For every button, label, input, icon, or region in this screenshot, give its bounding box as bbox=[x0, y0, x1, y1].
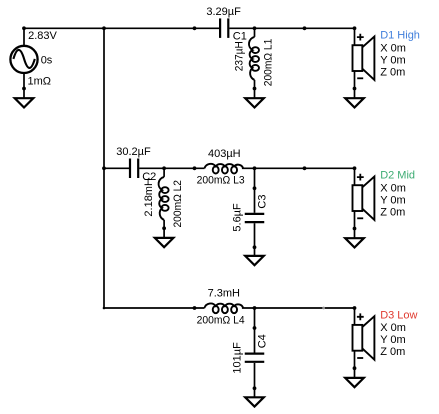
svg-text:Z 0m: Z 0m bbox=[380, 206, 405, 218]
wire C3 to ground bbox=[254, 223, 256, 256]
inductor L2 bbox=[159, 168, 169, 238]
junction D2 top corner bbox=[353, 166, 357, 170]
ground (inductor L1) bbox=[245, 98, 264, 107]
wire vertical bus bbox=[103, 28, 105, 308]
voltage source V1 bbox=[10, 28, 37, 98]
svg-text:C1: C1 bbox=[233, 31, 247, 43]
svg-text:7.3mH: 7.3mH bbox=[208, 288, 240, 300]
speaker D1 cone bbox=[362, 37, 374, 81]
junction source bottom terminal bbox=[22, 87, 26, 91]
svg-text:3.29µF: 3.29µF bbox=[206, 6, 241, 18]
junction bus middle junction bbox=[102, 166, 106, 170]
wire C4 stub bbox=[254, 308, 256, 353]
speaker D3 plus pin label bbox=[357, 313, 364, 320]
speaker D3 minus pin label bbox=[357, 357, 363, 359]
junction bus bottom corner bbox=[103, 307, 106, 310]
svg-text:200mΩ L4: 200mΩ L4 bbox=[197, 314, 245, 326]
wire speaker D2 to ground bbox=[354, 211, 356, 238]
capacitor C3 bbox=[245, 214, 265, 222]
junction D3 bottom terminal bbox=[353, 366, 357, 370]
svg-text:D1 High: D1 High bbox=[380, 30, 420, 42]
junction L2 bottom terminal bbox=[162, 226, 166, 230]
junction D3 top corner bbox=[353, 306, 357, 310]
svg-text:Y 0m: Y 0m bbox=[380, 54, 405, 66]
wire speaker D3 to ground bbox=[354, 351, 356, 378]
ground (speaker D3) bbox=[345, 378, 364, 387]
svg-text:D2 Mid: D2 Mid bbox=[380, 170, 415, 182]
svg-text:200mΩ L2: 200mΩ L2 bbox=[172, 180, 184, 228]
speaker D3 cone bbox=[362, 316, 374, 360]
svg-text:5.6µF: 5.6µF bbox=[231, 203, 243, 232]
svg-text:30.2µF: 30.2µF bbox=[116, 146, 151, 158]
svg-text:C4: C4 bbox=[256, 334, 268, 348]
ground (inductor L2) bbox=[155, 238, 174, 247]
wire top rail right (C1 to D1) bbox=[229, 27, 354, 29]
svg-text:C3: C3 bbox=[256, 195, 268, 209]
ground (source) bbox=[15, 98, 34, 107]
svg-text:X 0m: X 0m bbox=[380, 42, 406, 54]
svg-text:X 0m: X 0m bbox=[380, 182, 406, 194]
junction D2 bottom terminal bbox=[353, 227, 357, 231]
ground (capacitor C4) bbox=[245, 397, 264, 406]
speaker D2 driver body bbox=[353, 185, 363, 211]
junction L4 left terminal bbox=[193, 306, 197, 310]
speaker D1 driver body bbox=[353, 45, 363, 71]
svg-text:D3 Low: D3 Low bbox=[380, 309, 417, 321]
svg-text:X 0m: X 0m bbox=[380, 322, 406, 334]
ground (speaker D1) bbox=[345, 98, 364, 107]
junction L1 bottom terminal bbox=[253, 87, 257, 91]
svg-text:Y 0m: Y 0m bbox=[380, 194, 405, 206]
junction source top bbox=[22, 26, 26, 30]
junction middle rail mid junction bbox=[303, 166, 307, 170]
wire middle rail (C2 to L3) bbox=[139, 167, 204, 169]
junction D1 top corner bbox=[353, 26, 357, 30]
capacitor C2 bbox=[130, 159, 138, 179]
wire C3 stub bbox=[254, 168, 256, 213]
junction bottom rail grid mark bbox=[322, 307, 325, 310]
junction C4 top terminal bbox=[253, 326, 257, 330]
junction bus top bbox=[102, 26, 106, 30]
junction top rail mid junction bbox=[303, 26, 307, 30]
inductor L4 bbox=[204, 304, 243, 314]
speaker D2 plus pin label bbox=[357, 174, 364, 181]
speaker D2 minus pin label bbox=[357, 217, 363, 219]
svg-text:2.83V: 2.83V bbox=[28, 30, 57, 42]
wire speaker D1 to ground bbox=[354, 71, 356, 98]
junction D1 bottom terminal bbox=[353, 87, 357, 91]
junction L2 top terminal bbox=[162, 166, 166, 170]
svg-text:200mΩ L1: 200mΩ L1 bbox=[263, 39, 275, 87]
wire bottom rail right (L4 to D3) bbox=[242, 307, 355, 309]
svg-text:101µF: 101µF bbox=[231, 342, 243, 374]
wire speaker D1 drop bbox=[354, 28, 356, 45]
junction C3 bottom terminal bbox=[253, 245, 257, 249]
junction L1 top terminal bbox=[253, 26, 257, 30]
ground (capacitor C3) bbox=[245, 256, 264, 265]
wire top rail left (source to C1) bbox=[24, 27, 219, 29]
svg-text:2.18mH: 2.18mH bbox=[143, 178, 155, 217]
wire speaker D2 drop bbox=[354, 168, 356, 185]
wire C4 to ground bbox=[254, 363, 256, 397]
junction C3 top terminal bbox=[253, 186, 257, 190]
wire middle rail right (L3 to D2) bbox=[242, 167, 355, 169]
svg-text:403µH: 403µH bbox=[208, 148, 241, 160]
svg-text:0s: 0s bbox=[41, 55, 53, 67]
inductor L3 bbox=[204, 164, 243, 174]
svg-text:1mΩ: 1mΩ bbox=[28, 76, 52, 88]
svg-text:Y 0m: Y 0m bbox=[380, 334, 405, 346]
speaker D1 plus pin label bbox=[357, 34, 364, 41]
junction L3 right terminal bbox=[253, 166, 257, 170]
svg-text:Z 0m: Z 0m bbox=[380, 66, 405, 78]
speaker D1 minus pin label bbox=[357, 77, 363, 79]
svg-text:200mΩ L3: 200mΩ L3 bbox=[197, 175, 245, 187]
junction C4 bottom terminal bbox=[253, 386, 257, 390]
wire speaker D3 drop bbox=[354, 308, 356, 325]
junction L3 left terminal bbox=[193, 166, 197, 170]
inductor L1 bbox=[249, 28, 259, 98]
ground (speaker D2) bbox=[345, 238, 364, 247]
capacitor C4 bbox=[245, 354, 265, 362]
speaker D3 driver body bbox=[353, 325, 363, 351]
capacitor C1 bbox=[220, 18, 228, 38]
wire middle rail left (bus to C2) bbox=[104, 167, 129, 169]
junction C1 left terminal bbox=[193, 26, 197, 30]
speaker D2 cone bbox=[362, 177, 374, 221]
svg-text:Z 0m: Z 0m bbox=[380, 346, 405, 358]
wire bottom rail left (bus to L4) bbox=[104, 307, 205, 309]
junction L4 right terminal bbox=[253, 306, 257, 310]
svg-text:237µH: 237µH bbox=[233, 41, 245, 71]
